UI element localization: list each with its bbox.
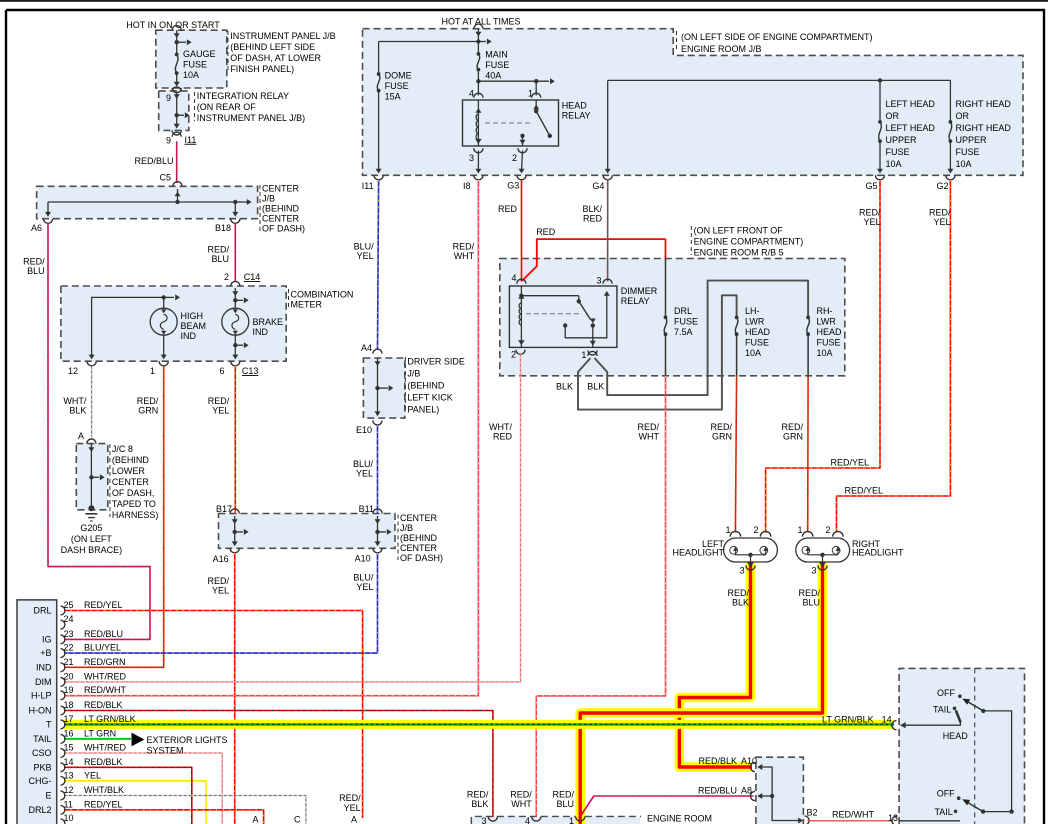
wire RED/GRN pin1 to row21 [64, 366, 164, 668]
node center J/B junction B18 [233, 200, 237, 204]
svg-text:IND: IND [36, 662, 52, 672]
svg-text:DRL: DRL [33, 606, 51, 616]
svg-text:A: A [252, 815, 258, 824]
pin A16 [230, 548, 239, 553]
svg-text:OF DASH): OF DASH) [400, 553, 443, 563]
svg-text:RED/: RED/ [798, 588, 820, 598]
svg-text:RED/: RED/ [339, 793, 361, 803]
svg-text:(BEHIND: (BEHIND [262, 204, 300, 214]
node A8 junction inside box [770, 794, 774, 798]
svg-text:(BEHIND: (BEHIND [407, 381, 445, 391]
relay DIMMER RELAY body [509, 286, 617, 347]
svg-text:J/B: J/B [262, 194, 275, 204]
svg-text:A: A [351, 815, 357, 824]
svg-text:HEADLIGHT: HEADLIGHT [672, 548, 724, 558]
wire RED/BLK row14 to bottom edge [64, 767, 192, 824]
svg-text:J/B: J/B [400, 523, 413, 533]
svg-text:BLU: BLU [27, 266, 45, 276]
fuse DRL FUSE 7.5A [665, 259, 667, 318]
fuse GAUGE FUSE 10A [175, 53, 179, 57]
labels connector rows [61, 606, 65, 615]
pin arcs head relay bottom [474, 148, 483, 153]
svg-text:HARNESS): HARNESS) [112, 510, 159, 520]
svg-text:G3: G3 [507, 181, 519, 191]
svg-text:BLK: BLK [732, 598, 749, 608]
svg-text:HEAD: HEAD [745, 327, 771, 337]
svg-text:YEL: YEL [84, 770, 101, 780]
pin 3 arrows of headlights [747, 562, 753, 567]
svg-text:GRN: GRN [138, 406, 158, 416]
svg-text:15: 15 [64, 743, 74, 753]
pin A8 arc [750, 791, 755, 800]
svg-text:6: 6 [219, 366, 224, 376]
svg-text:C14: C14 [244, 272, 261, 282]
svg-text:COMBINATION: COMBINATION [291, 290, 354, 300]
node brake ind top junction [233, 298, 237, 302]
wire LT GRN/BLK row17 to headlight switch pin 14 (highlighted) [64, 720, 894, 729]
svg-text:3: 3 [740, 565, 745, 575]
junction: J/C 8 box [76, 444, 108, 510]
wire RED/YEL G5 to left headlight pin 2 [766, 180, 880, 533]
wire WHT/BLK row12 to bottom pin C [64, 796, 306, 824]
node head relay pin1 junction [534, 79, 538, 83]
head relay switch [535, 100, 537, 112]
svg-text:9: 9 [166, 93, 171, 103]
svg-text:LT GRN: LT GRN [84, 728, 116, 738]
svg-text:11: 11 [64, 799, 73, 809]
svg-text:DOME: DOME [385, 71, 412, 81]
svg-text:A6: A6 [31, 223, 42, 233]
wire G4 riser [607, 80, 609, 172]
wire driver side J/B internal [377, 358, 379, 415]
svg-text:LT GRN/BLK: LT GRN/BLK [822, 715, 874, 725]
wire main fuse to head relay pin 4 [477, 70, 479, 96]
wire DRL fuse to box edge [665, 334, 667, 376]
svg-text:17: 17 [64, 714, 74, 724]
pin C14 [231, 281, 240, 286]
svg-text:MAIN: MAIN [485, 50, 508, 60]
svg-text:HIGH: HIGH [181, 311, 204, 321]
svg-text:RED/BLU: RED/BLU [134, 156, 173, 166]
meter: COMBINATION METER box [61, 286, 286, 361]
wire RED/YEL pin6 to B17 [234, 366, 236, 514]
svg-text:DIMMER: DIMMER [621, 286, 658, 296]
svg-text:RED/BLK: RED/BLK [84, 757, 123, 767]
node high beam ind top junction [162, 295, 166, 299]
svg-text:IND: IND [181, 331, 197, 341]
svg-text:E: E [45, 791, 51, 801]
svg-text:A10: A10 [741, 756, 757, 766]
wire LH-LWR fuse to box edge [736, 334, 738, 376]
dimmer relay contact to pin 3 [563, 323, 567, 327]
svg-text:RED/GRN: RED/GRN [84, 657, 126, 667]
svg-text:IG: IG [42, 634, 52, 644]
wire BLU/YEL I11 to A4 [378, 180, 379, 349]
fuse MAIN FUSE 40A [477, 52, 481, 56]
svg-text:1: 1 [150, 366, 155, 376]
svg-text:BLU: BLU [556, 799, 574, 809]
wire left head fuse to G5 [879, 141, 881, 172]
pins 3 4 1 on bottom engine room connector [488, 817, 497, 822]
wire high beam ind to pin 1 [163, 335, 165, 358]
svg-text:WHT: WHT [511, 799, 532, 809]
svg-text:YEL: YEL [212, 406, 229, 416]
svg-text:WHT/: WHT/ [489, 422, 512, 432]
wire RED/BLU B18 to C14 [234, 223, 236, 281]
svg-text:BLK: BLK [556, 382, 573, 392]
wire WHT/BLK pin12 to J/C8 [91, 366, 93, 438]
pin arcs dimmer relay top [517, 279, 526, 284]
svg-text:(ON REAR OF: (ON REAR OF [197, 102, 257, 112]
wire B17 to A16 internal [234, 516, 236, 545]
wire BLU/YEL E10 to B11 [377, 425, 379, 514]
svg-text:BLK: BLK [69, 406, 86, 416]
svg-text:RED/: RED/ [781, 422, 803, 432]
pin C5 on center J/B [173, 182, 182, 187]
svg-text:BEAM: BEAM [181, 321, 207, 331]
wire RED/BLU right headlight pin3 to bottom pin1 (highlighted) [580, 563, 822, 824]
svg-text:CENTER: CENTER [400, 543, 438, 553]
svg-text:RED/: RED/ [710, 422, 732, 432]
wire comb meter C14 to brake ind [234, 288, 236, 308]
svg-text:TAIL: TAIL [33, 734, 51, 744]
wire RED/YEL G2 to right headlight pin 2 [837, 180, 951, 533]
svg-text:FUSE: FUSE [485, 60, 509, 70]
svg-text:3: 3 [481, 816, 486, 824]
relay HEAD RELAY body [463, 100, 559, 146]
svg-text:23: 23 [64, 629, 74, 639]
svg-text:40A: 40A [485, 71, 501, 81]
svg-text:DIM: DIM [35, 677, 52, 687]
svg-text:GRN: GRN [712, 432, 732, 442]
svg-text:WHT: WHT [639, 432, 660, 442]
svg-text:FUSE: FUSE [183, 60, 207, 70]
svg-text:RED: RED [493, 432, 513, 442]
wire integration relay to pin 9 bottom [174, 124, 180, 129]
dimmer relay switch [521, 295, 578, 297]
svg-text:J/B: J/B [407, 369, 420, 379]
svg-text:3: 3 [596, 276, 601, 286]
svg-text:E10: E10 [356, 425, 372, 435]
svg-text:G4: G4 [592, 181, 604, 191]
svg-text:10A: 10A [817, 348, 833, 358]
node B11 junction [375, 530, 379, 534]
svg-text:DRL: DRL [674, 306, 692, 316]
node I11 connector below integration relay [172, 132, 181, 137]
svg-text:BLK: BLK [587, 382, 604, 392]
svg-text:WHT/BLK: WHT/BLK [84, 785, 124, 795]
wire gauge fuse to pin 9 [176, 73, 178, 85]
coil head relay [477, 100, 479, 146]
svg-text:CHG-: CHG- [29, 776, 52, 786]
node switch bus junction [1009, 809, 1013, 813]
pin A of J/C 8 [87, 439, 96, 444]
svg-text:RED/: RED/ [859, 208, 881, 218]
svg-text:ENGINE COMPARTMENT): ENGINE COMPARTMENT) [694, 237, 804, 247]
svg-text:RED/BLK: RED/BLK [698, 756, 737, 766]
svg-text:20: 20 [64, 671, 74, 681]
svg-text:13: 13 [64, 770, 74, 780]
node brake ind bottom junction [233, 343, 237, 347]
fuse LEFT HEAD UPPER FUSE 10A [879, 80, 881, 122]
svg-text:C: C [294, 815, 301, 824]
node gauge fuse feed junction [175, 40, 179, 44]
svg-text:GAUGE: GAUGE [183, 49, 216, 59]
svg-text:16: 16 [64, 728, 74, 738]
svg-text:2: 2 [512, 153, 517, 163]
svg-text:FUSE: FUSE [956, 147, 980, 157]
svg-text:10A: 10A [886, 159, 902, 169]
svg-text:2: 2 [511, 350, 516, 360]
wire YEL row13 to bottom edge [64, 781, 206, 824]
ground G205 [88, 505, 94, 511]
svg-text:HOT IN ON OR START: HOT IN ON OR START [126, 20, 220, 30]
svg-text:CENTER: CENTER [112, 477, 150, 487]
wire center J/B drop to A6 [47, 202, 49, 215]
wire center J/B drop to B18 [234, 202, 236, 215]
svg-text:LT GRN/BLK: LT GRN/BLK [84, 714, 136, 724]
svg-text:RED/BLU: RED/BLU [698, 786, 737, 796]
pin 14 of switch [892, 721, 897, 730]
node J/C8 junction [89, 475, 93, 479]
svg-text:RED/WHT: RED/WHT [84, 685, 126, 695]
svg-text:B18: B18 [215, 223, 231, 233]
svg-text:(BEHIND LEFT SIDE: (BEHIND LEFT SIDE [230, 42, 315, 52]
svg-text:19: 19 [64, 685, 74, 695]
svg-text:RELAY: RELAY [621, 296, 650, 306]
svg-text:RED/: RED/ [453, 242, 475, 252]
wire dome fuse branch [378, 42, 380, 75]
wire RED/BLU integration relay to C5 [176, 141, 178, 183]
pin arcs head relay top [474, 93, 483, 98]
wire RED branch dimmer pin4 to DRL fuse [522, 239, 666, 281]
svg-text:RED/: RED/ [137, 396, 159, 406]
svg-text:T: T [46, 719, 52, 729]
svg-text:7.5A: 7.5A [674, 327, 693, 337]
svg-text:ENGINE ROOM R/B 5: ENGINE ROOM R/B 5 [694, 248, 784, 258]
svg-text:RED/: RED/ [929, 208, 951, 218]
svg-text:RED: RED [536, 227, 556, 237]
wire RED/WHT B2 to switch pin 13 [808, 820, 894, 822]
svg-text:BLU/: BLU/ [353, 459, 374, 469]
pin 9 top of integration relay [172, 87, 181, 92]
svg-text:22: 22 [64, 643, 74, 653]
svg-text:RED/: RED/ [510, 790, 532, 800]
svg-text:RED/: RED/ [23, 257, 45, 267]
pin B17 [230, 509, 239, 514]
svg-text:CENTER: CENTER [262, 184, 300, 194]
wire WHT/RED dimmer pin2 to row 20 [64, 354, 521, 682]
svg-text:A: A [78, 431, 84, 441]
wire brake ind to pin 6 [234, 335, 236, 358]
wire WHT/RED row15 to bottom edge [64, 753, 222, 824]
svg-text:INTEGRATION RELAY: INTEGRATION RELAY [197, 91, 289, 101]
lamp HIGH BEAM IND [163, 297, 165, 308]
svg-text:GRN: GRN [783, 432, 803, 442]
svg-text:B2: B2 [807, 808, 818, 818]
pin B11 [373, 509, 382, 514]
svg-text:(BEHIND: (BEHIND [112, 455, 150, 465]
wire BLK dimmer pin1 right branch to RH-LWR fuse [595, 281, 809, 396]
wire RED/YEL A16 to bottom edge [234, 553, 236, 824]
pin E10 [373, 420, 382, 425]
fuse DOME FUSE 15A [377, 72, 381, 76]
svg-text:LWR: LWR [817, 317, 837, 327]
wire BLK dimmer pin1 left branch to LH-LWR fuse [578, 295, 737, 409]
svg-text:2: 2 [753, 525, 758, 535]
svg-text:RELAY: RELAY [562, 111, 591, 121]
svg-text:2: 2 [224, 272, 229, 282]
svg-text:(ON LEFT: (ON LEFT [71, 534, 113, 544]
svg-text:10A: 10A [956, 159, 972, 169]
fuse RH-LWR HEAD FUSE 10A [806, 316, 810, 320]
svg-text:LEFT HEAD: LEFT HEAD [886, 99, 936, 109]
svg-text:10A: 10A [745, 348, 761, 358]
svg-text:A4: A4 [361, 343, 372, 353]
svg-text:OFF: OFF [937, 789, 955, 799]
pin A10 [373, 548, 382, 553]
svg-text:1: 1 [581, 350, 586, 360]
svg-text:B11: B11 [359, 504, 374, 514]
svg-text:OFF: OFF [937, 688, 955, 698]
wire RED G3 to dimmer pin 4 [521, 180, 523, 282]
pin A4 [373, 349, 382, 354]
svg-text:WHT: WHT [454, 251, 475, 261]
node head relay feed junction [476, 79, 480, 83]
svg-text:RH-: RH- [817, 306, 833, 316]
svg-text:RED/: RED/ [637, 422, 659, 432]
connector: instrument panel connector (left, pins 10-26) [17, 600, 57, 824]
svg-text:FUSE: FUSE [745, 338, 769, 348]
relay: INTEGRATION RELAY box [159, 91, 189, 130]
wire RED/YEL row25 to bottom pin A [64, 611, 363, 819]
wire LT GRN row16 to exterior lights arrow [64, 738, 131, 740]
wire engine room J/B bus to head fuses [608, 79, 951, 81]
connector: ENGINE ROOM (A10/A8) box [756, 757, 804, 824]
svg-text:J/C 8: J/C 8 [112, 444, 133, 454]
svg-text:INSTRUMENT PANEL J/B: INSTRUMENT PANEL J/B [230, 31, 335, 41]
svg-text:FUSE: FUSE [385, 81, 409, 91]
svg-text:RIGHT HEAD: RIGHT HEAD [956, 99, 1012, 109]
wire RED/WHT DRL fuse output to bottom pin 4 [536, 376, 665, 817]
svg-text:1: 1 [797, 525, 802, 535]
wire RED/WHT I8 to row 19 [64, 180, 478, 696]
svg-text:BLK/: BLK/ [582, 204, 602, 214]
coil dimmer relay [520, 286, 522, 347]
svg-text:24: 24 [64, 614, 74, 624]
svg-text:14: 14 [882, 715, 892, 725]
wire center J/B internal bus [177, 189, 179, 202]
svg-text:OF DASH, AT LOWER: OF DASH, AT LOWER [230, 53, 321, 63]
svg-text:BRAKE: BRAKE [253, 317, 284, 327]
wire switch head contact to pin 14 [901, 722, 961, 725]
svg-text:UPPER: UPPER [886, 135, 918, 145]
wire dome fuse to I11 exit [378, 91, 380, 172]
lamp BRAKE IND [222, 308, 249, 335]
svg-text:RED/: RED/ [467, 790, 489, 800]
svg-text:ENGINE ROOM: ENGINE ROOM [647, 814, 712, 824]
wire inside A10/A8 connector box [758, 767, 800, 821]
lamp RIGHT HEADLIGHT [796, 538, 850, 562]
svg-text:RED/BLU: RED/BLU [84, 629, 123, 639]
svg-text:INSTRUMENT PANEL J/B): INSTRUMENT PANEL J/B) [197, 113, 305, 123]
svg-text:FUSE: FUSE [817, 338, 841, 348]
svg-text:(ON LEFT FRONT OF: (ON LEFT FRONT OF [694, 226, 784, 236]
wire battery feed into engine room J/B [474, 24, 483, 29]
svg-text:+B: +B [40, 648, 51, 658]
wire BLK/RED G4 to dimmer pin 3 [607, 180, 609, 282]
wire head relay pin3 to I8 exit [477, 151, 479, 173]
svg-text:BLU/: BLU/ [354, 242, 375, 252]
switch blade 1 [965, 700, 984, 711]
wire RED/GRN RH-LWR to right headlight pin 1 [807, 376, 809, 533]
svg-text:RED/WHT: RED/WHT [832, 810, 874, 820]
svg-text:9: 9 [166, 136, 171, 146]
svg-text:C13: C13 [242, 366, 259, 376]
svg-text:4: 4 [511, 273, 516, 283]
svg-text:I11: I11 [185, 135, 197, 145]
svg-text:12: 12 [64, 785, 74, 795]
pin B2 arc [805, 816, 810, 824]
svg-text:EXTERIOR LIGHTS: EXTERIOR LIGHTS [147, 735, 228, 745]
connector: ENGINE ROOM (bottom 3/4/1) box [471, 817, 641, 824]
node B17 junction [233, 530, 237, 534]
svg-text:RED/YEL: RED/YEL [831, 458, 870, 468]
svg-text:RED/: RED/ [552, 790, 574, 800]
fuse LH-LWR HEAD FUSE 10A [735, 316, 739, 320]
svg-text:LWR: LWR [745, 317, 765, 327]
pin A10 arc [750, 762, 755, 771]
wire B11 to A10 internal [377, 516, 379, 545]
svg-text:H-LP: H-LP [31, 690, 52, 700]
svg-text:RIGHT HEAD: RIGHT HEAD [956, 123, 1012, 133]
junction block: ENGINE ROOM J/B (compound dashed box) [363, 29, 1024, 176]
svg-text:(ON LEFT SIDE OF ENGINE COMPAR: (ON LEFT SIDE OF ENGINE COMPARTMENT) [681, 32, 873, 42]
svg-text:I11: I11 [362, 181, 374, 191]
svg-text:A8: A8 [741, 786, 752, 796]
headlight switch inner divider [974, 668, 976, 824]
svg-text:BLU: BLU [211, 254, 229, 264]
svg-text:RED/YEL: RED/YEL [845, 486, 884, 496]
wire RED/BLK row18 to bottom pin 3 [64, 711, 493, 818]
node exterior lights system arrow [132, 733, 145, 747]
head relay coil-switch dashed link [485, 122, 530, 124]
svg-text:PANEL): PANEL) [407, 405, 439, 415]
wire J/C8 internal [90, 444, 92, 509]
svg-text:YEL: YEL [212, 586, 229, 596]
svg-text:RED/BLK: RED/BLK [84, 700, 123, 710]
wire RED/BLU A6 down-jog to pin 23 [48, 223, 150, 639]
svg-text:LEFT HEAD: LEFT HEAD [886, 123, 936, 133]
svg-text:DASH BRACE): DASH BRACE) [61, 545, 123, 555]
pin 13 of switch [892, 816, 897, 824]
svg-text:FINISH PANEL): FINISH PANEL) [230, 64, 294, 74]
svg-text:RED/YEL: RED/YEL [84, 799, 123, 809]
svg-text:RED/: RED/ [727, 588, 749, 598]
pin arcs dimmer relay bottom [516, 350, 525, 355]
svg-text:CSO: CSO [32, 748, 52, 758]
svg-text:OR: OR [886, 111, 900, 121]
svg-text:YEL: YEL [357, 251, 374, 261]
wire RED/YEL row11 to bottom pin A [64, 810, 264, 824]
node center J/B junction C5 [175, 200, 179, 204]
svg-text:10: 10 [64, 813, 74, 823]
node main feed junction [476, 39, 480, 43]
svg-text:OF DASH,: OF DASH, [112, 488, 155, 498]
svg-text:HEAD: HEAD [562, 101, 588, 111]
svg-text:RED/: RED/ [207, 245, 229, 255]
svg-text:YEL: YEL [356, 582, 373, 592]
